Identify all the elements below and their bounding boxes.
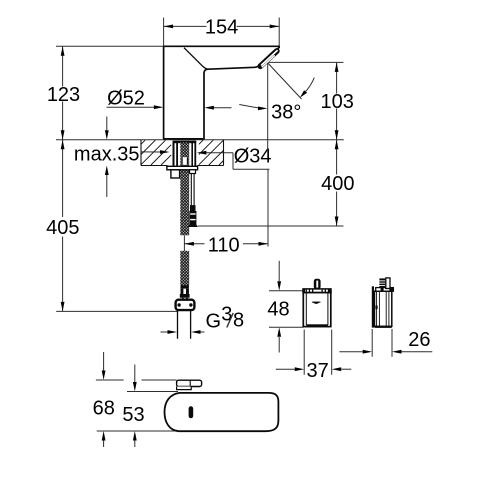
control box side view: body bbox=[375, 291, 392, 326]
svg-text:154: 154 bbox=[205, 17, 238, 39]
braided supply hose upper segment bbox=[180, 143, 189, 236]
counter slab cross-section with hatching bbox=[141, 140, 224, 166]
control box side view: top cap bbox=[376, 288, 394, 292]
dimension 48: reference lines bbox=[269, 290, 304, 292]
dimension max.35: lower arrow line bbox=[106, 175, 108, 197]
control box side view: clip bbox=[386, 278, 390, 289]
angle 38: vertical reference line from aerator tip bbox=[267, 63, 269, 152]
datum line: cable plug end (400 bottom ref) bbox=[198, 225, 344, 227]
svg-text:G: G bbox=[206, 311, 222, 333]
dimension 110: witness lines bbox=[183, 236, 185, 252]
svg-text:8: 8 bbox=[233, 310, 244, 332]
dimension 154: line bbox=[164, 25, 207, 27]
braided supply hose lower segment bbox=[180, 251, 189, 286]
dimension 400: line bbox=[336, 140, 338, 175]
dimension 26: arrow lines bbox=[339, 351, 362, 353]
hose crimp collar bbox=[180, 285, 190, 300]
dimension 400: arrowheads bbox=[335, 140, 339, 150]
dimension 123: arrowheads bbox=[61, 46, 65, 56]
svg-text:110: 110 bbox=[208, 234, 240, 256]
angle 38: sloped spray line bbox=[268, 63, 302, 99]
dimension 53: arrow lines bbox=[134, 365, 136, 383]
cable gland bbox=[190, 170, 196, 174]
svg-text:400: 400 bbox=[321, 173, 354, 195]
aerator striped tip bbox=[260, 51, 277, 67]
dimension max.35: leader arrow to shank bbox=[142, 151, 161, 153]
fixing nut bbox=[171, 170, 180, 178]
dimension 53: reference line bbox=[127, 391, 178, 393]
svg-text:Ø34: Ø34 bbox=[234, 146, 272, 168]
datum line: faucet top (123 top ref) bbox=[56, 45, 164, 47]
dimension 405: arrowheads bbox=[61, 140, 65, 150]
dimension 405: line bbox=[62, 140, 64, 217]
dimension 48: arrow lines bbox=[278, 261, 280, 281]
dimension 37: witness lines bbox=[303, 330, 305, 375]
dimension 154: arrowheads bbox=[164, 25, 174, 29]
label diameter 34: shelf line bbox=[233, 168, 269, 170]
angle 38: arc with arrowhead bbox=[304, 78, 314, 94]
dimension 154: witness lines bbox=[163, 18, 165, 47]
shank center fitting highlight bbox=[181, 157, 188, 165]
bottom view: sensor slot bbox=[189, 406, 194, 418]
threaded pipe end bbox=[177, 310, 179, 339]
svg-text:37: 37 bbox=[306, 360, 328, 382]
dimension 110: arrowheads bbox=[184, 242, 194, 246]
svg-text:48: 48 bbox=[267, 299, 289, 321]
svg-text:38°: 38° bbox=[271, 102, 301, 124]
label diameter 52: leader line and arrow bbox=[107, 106, 155, 108]
mounting shank in counter hole bbox=[173, 141, 197, 167]
control box front view: top nipple bbox=[314, 279, 321, 290]
datum line: hose nut bottom (405 bottom ref) bbox=[56, 310, 177, 312]
faucet body front view outline bbox=[164, 46, 280, 139]
label diameter 34: leader arrow to hole bbox=[206, 152, 233, 154]
svg-text:405: 405 bbox=[46, 217, 79, 239]
svg-text:103: 103 bbox=[321, 91, 354, 113]
angle 38: leader to vertical line bbox=[239, 105, 258, 108]
base washer under counter bbox=[167, 166, 198, 170]
control box side view: wall flange bbox=[372, 286, 374, 327]
control box front view: bottom bracket edge bbox=[306, 324, 328, 326]
datum line: aerator tip (103 top ref) bbox=[268, 61, 344, 63]
sensor cable bbox=[190, 174, 192, 206]
bottom view: spout tab bbox=[177, 380, 202, 386]
svg-text:68: 68 bbox=[93, 398, 115, 420]
dimension 68: arrow lines bbox=[103, 352, 105, 371]
label G3/8: arrows to pipe thread bbox=[161, 331, 168, 333]
svg-text:26: 26 bbox=[408, 329, 430, 351]
bottom view: faucet body outline bbox=[165, 393, 279, 431]
dimension 68: reference line bbox=[96, 379, 124, 381]
dimension 103: arrowheads bbox=[335, 62, 339, 72]
dimension 110: line bbox=[184, 243, 204, 245]
dimension 37: arrow lines bbox=[276, 368, 295, 370]
dimension 26: witness lines bbox=[371, 329, 373, 357]
control box front view: body bbox=[303, 293, 331, 327]
control box side view: bottom edge bbox=[375, 326, 392, 328]
svg-text:123: 123 bbox=[47, 84, 80, 106]
svg-text:Ø52: Ø52 bbox=[107, 88, 145, 110]
hose nut G3/8 bbox=[176, 300, 195, 310]
angle 38: leader to column edge bbox=[214, 107, 232, 109]
dimension 53: bottom reference line bbox=[97, 430, 180, 432]
control box side view: nipple bbox=[379, 278, 385, 288]
counter hatch lines bbox=[141, 140, 224, 165]
dimension max.35: upper arrow line bbox=[106, 117, 108, 131]
svg-text:max.35: max.35 bbox=[74, 144, 140, 166]
svg-text:3: 3 bbox=[221, 303, 232, 325]
dimension 123: line bbox=[62, 46, 64, 86]
dimension 103: line bbox=[336, 62, 338, 93]
svg-text:53: 53 bbox=[122, 404, 144, 426]
datum line: counter top, long horizontal bbox=[56, 139, 344, 141]
faucet front face edge (diagonal) bbox=[184, 48, 208, 69]
control box side view: notch bbox=[376, 306, 378, 310]
cable plug connector bbox=[188, 205, 198, 227]
control box front view: latch detail bbox=[312, 302, 320, 304]
bottom view: tab step bbox=[177, 387, 192, 390]
control box front view: top cap bbox=[303, 289, 331, 293]
label diameter 34: leader step bbox=[232, 153, 234, 170]
